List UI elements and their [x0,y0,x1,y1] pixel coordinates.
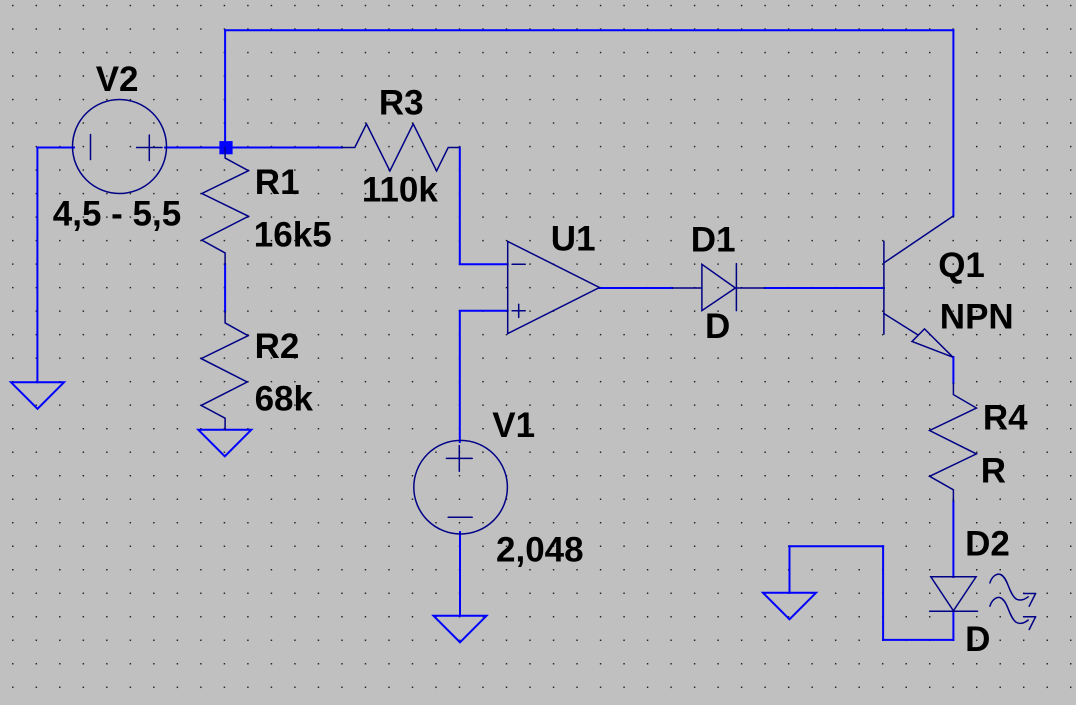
resistor R2 [201,312,248,430]
svg-text:U1: U1 [551,220,596,259]
wire collector vertical [952,30,954,216]
wire emitter to R4 [952,357,954,383]
wire D2 bottom horizontal [883,639,953,641]
svg-text:V2: V2 [96,60,139,99]
wire R1 to R2 [224,264,226,311]
diode D1 [672,287,702,289]
ground (near D2) [763,593,816,620]
resistor R4 [930,383,977,501]
LED D2 emission arrow 2 [990,597,1028,623]
resistor R3 [342,124,460,171]
svg-text:110k: 110k [362,170,438,209]
svg-text:NPN: NPN [940,297,1014,336]
wire R3 to inverting input corner [460,148,508,265]
svg-text:R: R [981,451,1006,490]
svg-text:R3: R3 [379,84,424,123]
wire V1 bottom to ground [459,532,461,616]
svg-text:68k: 68k [255,379,314,418]
resistor R1 [202,148,249,265]
svg-text:R1: R1 [255,163,300,202]
wire V2 minus lead [37,147,74,149]
svg-text:D1: D1 [691,220,736,259]
svg-text:4,5 - 5,5: 4,5 - 5,5 [53,194,181,233]
svg-text:R2: R2 [255,327,300,366]
ground (left, V2) [11,382,64,409]
svg-text:D: D [965,620,990,659]
svg-text:Q1: Q1 [938,246,985,285]
wire D1 to Q1 base [765,287,884,289]
node junction [219,141,232,154]
LED D2 emission arrow 1 [990,574,1028,600]
wire top horizontal [225,29,953,31]
ground (under R2) [198,430,251,457]
transistor Q1 [883,241,885,334]
wire V1 to non-inverting input [460,311,508,442]
svg-text:R4: R4 [983,399,1028,438]
wire ground stem [789,546,791,593]
wire R4 to D2 [952,501,954,577]
wire V2 plus to junction [165,147,226,149]
wire D2 cathode down [952,611,954,640]
wire junction to R3 [226,147,342,149]
svg-text:16k5: 16k5 [254,216,332,255]
wire bottom vertical riser [882,546,884,640]
wire left vertical to ground [36,148,38,383]
op-amp U1 [508,241,600,333]
voltage source V2 [73,100,167,194]
svg-text:V1: V1 [492,406,535,445]
LED D2 [931,577,976,611]
voltage source V1 [414,440,508,534]
wire op-amp output to D1 [599,287,672,289]
wire bottom horizontal to ground stem [790,545,884,547]
svg-text:D: D [705,307,730,346]
wire top-left vertical drop to junction [224,30,226,141]
svg-text:2,048: 2,048 [496,531,584,570]
svg-text:D2: D2 [965,525,1010,564]
ground (under V1) [434,616,487,643]
